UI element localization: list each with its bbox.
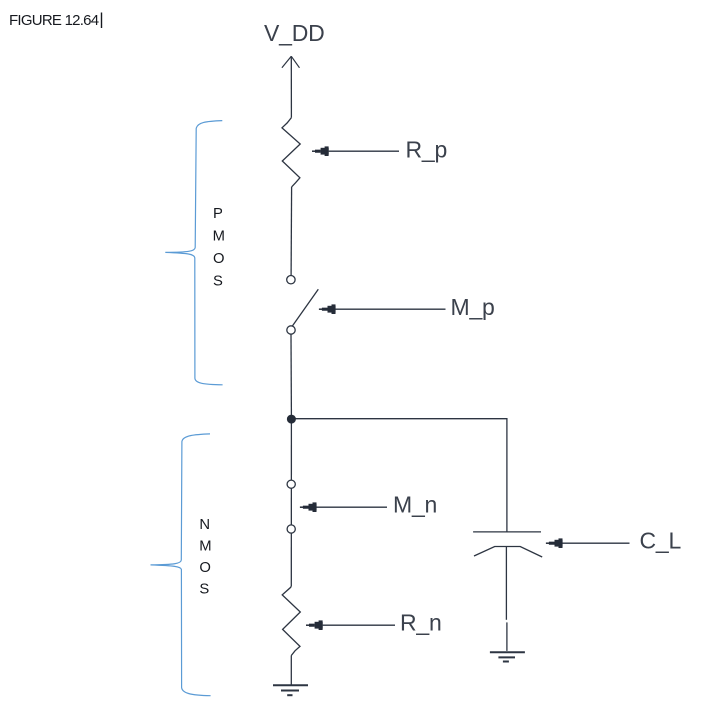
svg-text:V_DD: V_DD <box>264 20 325 46</box>
svg-text:C_L: C_L <box>640 528 682 554</box>
label NMOS <box>199 517 211 598</box>
switch M_p <box>287 276 319 335</box>
wire output node horizontal <box>293 419 507 532</box>
wire M_p to node <box>290 334 292 415</box>
svg-text:S: S <box>199 582 209 598</box>
resistor R_n <box>282 586 300 655</box>
node junction dot <box>287 415 296 424</box>
text cursor <box>101 13 103 29</box>
svg-text:O: O <box>199 560 211 576</box>
label PMOS <box>213 206 225 289</box>
switch M_n <box>287 480 295 533</box>
arrow to R_n <box>306 620 395 630</box>
svg-text:O: O <box>213 251 225 267</box>
capacitor C_L <box>473 532 542 557</box>
svg-text:P: P <box>213 206 223 222</box>
svg-text:M: M <box>213 228 225 244</box>
svg-text:M_n: M_n <box>393 492 437 518</box>
resistor R_p <box>282 118 300 187</box>
svg-text:N: N <box>199 517 210 533</box>
svg-text:FIGURE 12.64: FIGURE 12.64 <box>9 12 99 29</box>
svg-text:M_p: M_p <box>451 294 495 320</box>
wire V_DD stem <box>290 56 292 117</box>
arrow to C_L <box>546 538 630 548</box>
arrow to R_p <box>312 146 399 156</box>
brace NMOS <box>151 434 211 696</box>
svg-text:M: M <box>199 539 211 555</box>
svg-text:R_n: R_n <box>400 610 442 636</box>
wire C_L to ground <box>505 547 508 651</box>
V_DD arrow up <box>282 56 300 68</box>
wire R_n to ground <box>290 656 292 686</box>
wire node to M_n and R_n <box>290 419 292 586</box>
wire R_p to M_p <box>290 187 293 276</box>
ground below C_L <box>490 652 525 661</box>
arrow to M_p <box>319 304 446 314</box>
ground below R_n <box>273 685 308 695</box>
arrow to M_n <box>300 502 387 512</box>
svg-text:S: S <box>213 273 223 289</box>
brace PMOS <box>165 121 222 385</box>
svg-text:R_p: R_p <box>406 136 448 162</box>
